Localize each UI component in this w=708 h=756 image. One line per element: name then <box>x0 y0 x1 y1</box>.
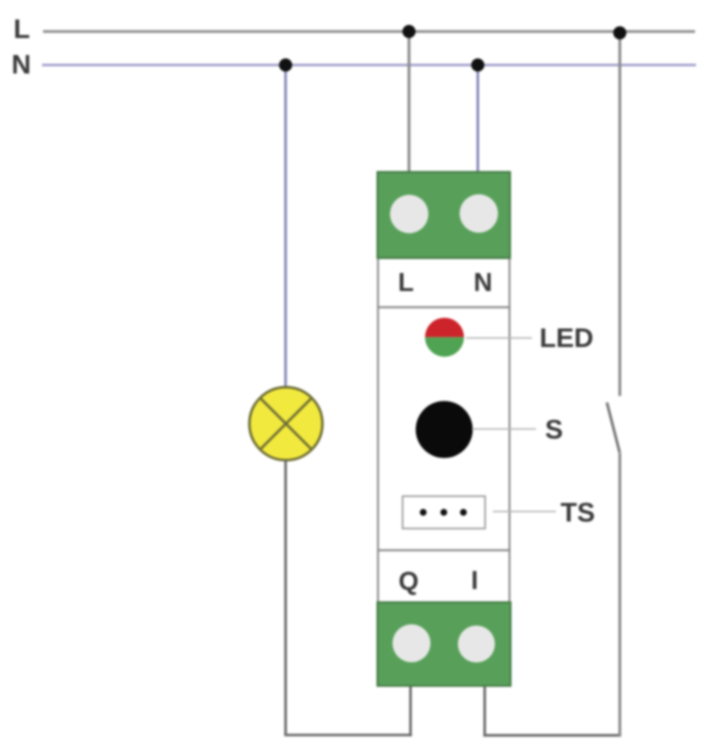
TS dot 3 <box>460 509 467 516</box>
terminal hole top-right <box>460 194 498 232</box>
svg-text:L: L <box>398 267 414 297</box>
wire switch down to bottom <box>618 453 621 737</box>
terminal block top <box>378 172 511 258</box>
power rail L <box>43 30 695 33</box>
LED indicator <box>425 318 464 357</box>
terminal hole bottom-right <box>458 626 495 663</box>
svg-text:Q: Q <box>398 566 418 596</box>
TS dot 1 <box>420 509 427 516</box>
svg-text:N: N <box>12 50 32 80</box>
terminal hole top-left <box>390 195 428 233</box>
relay module U1 body <box>378 258 510 603</box>
svg-text:L: L <box>14 14 31 44</box>
pointer line S <box>472 428 536 430</box>
wire N rail to device N terminal <box>476 65 479 174</box>
wire bottom left horizontal <box>284 734 412 737</box>
divider above Q/I band <box>377 549 511 551</box>
terminal block bottom <box>378 602 511 686</box>
pointer line LED <box>466 337 532 339</box>
TS dot 2 <box>440 509 447 516</box>
pointer line TS <box>493 511 556 513</box>
junction node N/lamp branch <box>279 58 292 71</box>
switch S1 blade <box>607 403 620 453</box>
wire bottom right horizontal <box>483 734 621 737</box>
svg-text:LED: LED <box>540 323 594 353</box>
lamp E1 <box>249 387 322 460</box>
wire N rail down to lamp <box>284 65 287 390</box>
junction node L/switch branch <box>613 26 626 39</box>
wire lamp down <box>284 460 287 735</box>
wire Q terminal down <box>409 685 412 736</box>
wire L rail down to switch <box>618 32 621 397</box>
terminal hole bottom-left <box>393 624 431 662</box>
svg-text:I: I <box>471 565 478 595</box>
svg-text:N: N <box>474 267 493 297</box>
junction node N/device <box>471 58 484 71</box>
TS connector box <box>403 496 486 528</box>
power rail N <box>42 64 696 67</box>
wire L rail to device L terminal <box>408 32 411 175</box>
wire I terminal down <box>483 685 486 737</box>
junction node L/device <box>402 25 415 38</box>
svg-text:S: S <box>545 415 563 445</box>
svg-text:TS: TS <box>561 498 596 528</box>
button S <box>416 401 473 458</box>
divider below L/N band <box>377 306 511 308</box>
